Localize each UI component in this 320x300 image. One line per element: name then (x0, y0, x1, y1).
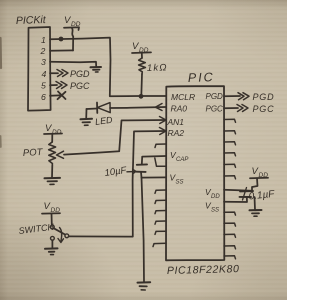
stub pin left y210 (155, 211, 166, 214)
no-connect X pin6 (58, 92, 66, 100)
svg-text:CAP: CAP (176, 157, 188, 163)
svg-text:2: 2 (40, 46, 46, 56)
arrowhead RA0 (points left) (156, 104, 163, 111)
wire RA2 from switch (69, 131, 166, 237)
pin label VCAP (170, 150, 188, 163)
ground (C2) (250, 210, 262, 216)
switch SW1 pole contact (50, 225, 54, 229)
svg-text:SWITCH: SWITCH (18, 222, 55, 236)
svg-text:MCLR: MCLR (171, 92, 195, 102)
wire pin1 to MCLR (top rail) (50, 38, 166, 97)
resistor R1 lead top (141, 53, 143, 58)
stub pin left y231 (155, 231, 166, 234)
svg-text:0.1µF: 0.1µF (248, 189, 276, 203)
svg-text:PIC: PIC (188, 70, 215, 85)
stub pin right y223 (224, 223, 236, 226)
wire AN1 from POT (64, 120, 166, 155)
wire C1 bottom to VSS rail (140, 172, 143, 178)
svg-text:PICKit: PICKit (16, 14, 47, 27)
svg-text:DD: DD (52, 129, 62, 136)
svg-text:RA0: RA0 (171, 104, 188, 114)
connector J1 PICKit box (28, 27, 51, 111)
switch SW1 throw contact (65, 234, 69, 238)
pin6 no-connect wire (50, 94, 62, 97)
power VDD symbol above C2 (250, 166, 268, 191)
pin label VSS (left) (170, 173, 184, 186)
svg-text:PGC: PGC (70, 81, 90, 91)
LED D1 diode (97, 103, 110, 114)
wire pin3 to ground (50, 62, 96, 67)
potentiometer wiper arrowhead (57, 151, 64, 158)
label 10uF with arrow (104, 165, 136, 179)
stub pin right y164 (224, 164, 236, 167)
wire LED to ground (85, 109, 87, 119)
stub pin right y176 (224, 176, 236, 179)
svg-text:PGC: PGC (206, 105, 224, 114)
svg-text:1: 1 (41, 35, 46, 45)
switch SW1 lever (54, 228, 65, 234)
arrowhead PGC double chevron (237, 105, 248, 112)
ground (VSS bottom) (138, 282, 151, 290)
wire switch lower to ground (51, 240, 53, 248)
svg-text:PGD: PGD (206, 92, 224, 101)
junction dot R1/MCLR (139, 94, 144, 99)
stub pin left y166 (155, 158, 166, 166)
stub pin right y153 (224, 153, 236, 156)
arrowhead RA2 (points right, into PIC) (160, 128, 167, 135)
pin4 PGD arrow (50, 70, 68, 77)
svg-text:SS: SS (176, 180, 184, 186)
stub pin right y119 (224, 119, 236, 122)
potentiometer lead bottom (51, 166, 53, 178)
pin label VSS (inside right) (205, 201, 219, 214)
stub pin left y200 (155, 200, 166, 203)
stub pin right y234 (224, 234, 236, 237)
ground (LED) (81, 119, 93, 126)
svg-text:PGD: PGD (253, 92, 275, 102)
wire LED anode stub (87, 108, 98, 111)
stub pin left y190 (155, 190, 166, 193)
power VDD symbol above switch (42, 201, 60, 214)
wire VDD to switch pole (51, 214, 53, 225)
stub pin right y256 (224, 256, 236, 259)
svg-text:PGC: PGC (253, 104, 275, 114)
resistor R1 1k (139, 58, 146, 74)
ground (pin3) (91, 67, 102, 72)
junction dot on pin1 wire (59, 37, 64, 42)
wire VSS (left) (142, 176, 167, 178)
wire PGC out (224, 107, 238, 109)
svg-text:LED: LED (94, 115, 113, 127)
capacitor C2 0.1uF bottom plate (240, 196, 252, 198)
svg-text:4: 4 (42, 69, 47, 79)
svg-text:PIC18F22K80: PIC18F22K80 (167, 263, 240, 277)
pin label VDD (inside right) (205, 187, 220, 200)
paper edge smudge left mid (0, 136, 2, 147)
wire PGD out (224, 95, 240, 97)
stub pin right y142 (224, 142, 236, 145)
wire pin2 (50, 49, 73, 51)
stub pin right y212 (224, 212, 236, 215)
svg-text:POT: POT (23, 147, 44, 159)
potentiometer RV1 body (49, 142, 56, 166)
wire RA0 to LED (110, 107, 166, 108)
wire VCAP to C1 (142, 156, 166, 164)
IC U1 PIC18F22K80 box (166, 86, 224, 260)
power VDD symbol above R1 (132, 41, 151, 54)
svg-text:RA2: RA2 (168, 128, 185, 138)
wire C2 bottom to ground (254, 197, 257, 210)
svg-text:DD: DD (211, 194, 220, 200)
arrowhead PGD double chevron (238, 93, 249, 100)
resistor R1 lead bottom (140, 74, 143, 96)
svg-text:10µF: 10µF (104, 165, 128, 179)
power VDD symbol above POT (44, 123, 62, 136)
potentiometer lead top (51, 134, 53, 142)
stub pin left y144 (155, 144, 166, 148)
svg-text:3: 3 (41, 57, 46, 67)
svg-text:PGD: PGD (70, 69, 90, 79)
capacitor C2 0.1uF top plate (240, 190, 253, 192)
ground (switch) (45, 248, 58, 254)
capacitor C2 slash (243, 188, 247, 201)
wire VSS pin to C2 bottom (224, 197, 247, 202)
stub pin left y221 (155, 221, 166, 224)
arrowhead AN1 (points right, into PIC) (160, 117, 167, 124)
svg-text:SS: SS (211, 208, 219, 214)
capacitor C1 10uF top plate (137, 163, 147, 165)
svg-text:6: 6 (41, 92, 46, 102)
svg-text:1kΩ: 1kΩ (147, 62, 168, 74)
switch lower contact (51, 236, 55, 240)
switch actuation arrow (60, 228, 62, 242)
pin5 PGC arrow (50, 82, 67, 89)
wire VDD drop to pin2 (72, 28, 74, 51)
stub pin left y243 (153, 243, 166, 246)
power VDD symbol top-left (64, 15, 81, 30)
stub pin right y131 (224, 131, 236, 134)
wire VSS down to ground (142, 178, 145, 282)
wire VDD pin to C2 (224, 190, 252, 191)
stub pin right y246 (224, 246, 236, 249)
paper edge smudge left upper (0, 38, 2, 68)
ground (POT) (45, 178, 61, 185)
capacitor C1 10uF bottom plate (136, 171, 145, 173)
svg-text:5: 5 (41, 81, 46, 91)
svg-text:AN1: AN1 (167, 117, 185, 127)
